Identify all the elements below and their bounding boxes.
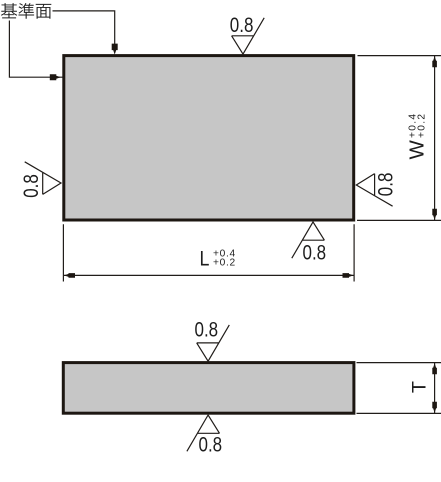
svg-text:+0.2: +0.2 — [213, 258, 236, 269]
svg-text:0.8: 0.8 — [194, 319, 218, 342]
svg-text:0.8: 0.8 — [198, 434, 222, 457]
svg-text:W: W — [406, 140, 429, 160]
svg-text:+0.2: +0.2 — [417, 113, 428, 138]
svg-text:T: T — [409, 381, 431, 393]
svg-text:0.8: 0.8 — [302, 242, 326, 265]
svg-text:0.8: 0.8 — [230, 14, 254, 37]
svg-text:0.8: 0.8 — [21, 174, 44, 198]
svg-text:0.8: 0.8 — [375, 173, 398, 197]
svg-text:L: L — [200, 247, 210, 271]
